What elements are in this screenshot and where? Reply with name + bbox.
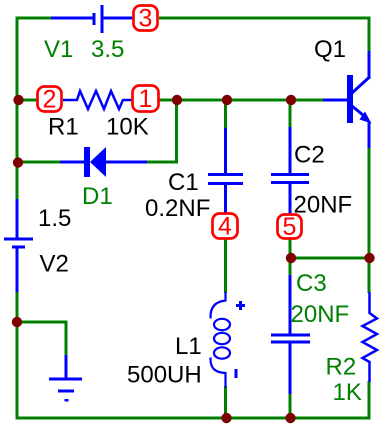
svg-text:V2: V2: [40, 251, 69, 278]
wire emitter lead: [368, 121, 371, 149]
svg-text:C1: C1: [168, 169, 199, 196]
capacitor C1 top plate: [208, 173, 243, 176]
wire diode row right to riser: [146, 100, 177, 162]
svg-text:0.2NF: 0.2NF: [145, 195, 210, 222]
node 1: [133, 86, 159, 112]
ground bar 2: [58, 390, 74, 393]
inductor L1 loop 3: [214, 347, 230, 358]
wire top-right rail: [159, 18, 369, 51]
svg-text:10K: 10K: [106, 114, 149, 141]
resistor R1: [63, 91, 132, 109]
wire C1 lead upper: [224, 128, 227, 174]
junction dot node5 row right: [364, 253, 374, 263]
wire base lead blue: [323, 99, 347, 102]
svg-text:1K: 1K: [333, 379, 362, 406]
inductor L1 loop 2: [214, 333, 230, 344]
capacitor C1 bottom plate: [208, 182, 243, 185]
wire C3 column bottom: [289, 394, 292, 418]
battery V2 lead upper: [16, 199, 19, 239]
node 5: [278, 215, 302, 239]
svg-text:C3: C3: [296, 270, 327, 297]
wire C1 lead lower: [224, 184, 227, 216]
wire C1 column top: [224, 100, 227, 129]
wire left vertical lower (V2 to bottom): [17, 291, 369, 418]
svg-text:20NF: 20NF: [291, 301, 350, 328]
diode D1 triangle: [90, 147, 106, 177]
svg-text:20NF: 20NF: [294, 192, 353, 219]
wire node4 to L1: [224, 238, 227, 293]
wire node5 to row: [289, 238, 292, 259]
svg-text:500UH: 500UH: [127, 362, 202, 389]
node 3: [134, 6, 158, 31]
junction dot diode row: [13, 157, 23, 167]
svg-text:R1: R1: [48, 114, 79, 141]
wire node5 row horizontal: [290, 257, 369, 260]
battery V2 long plate: [4, 238, 33, 241]
svg-text:R2: R2: [326, 354, 357, 381]
junction dot base row C2 branch: [286, 95, 296, 105]
svg-text:3.5: 3.5: [91, 36, 124, 63]
wire L1 to bottom: [224, 386, 227, 418]
transistor Q1 collector diagonal: [352, 77, 370, 93]
svg-text:L1: L1: [175, 333, 202, 360]
battery V1 lead left: [51, 17, 93, 20]
diode D1 lead left: [60, 161, 85, 164]
wire emitter column green: [368, 148, 371, 293]
ground stem: [65, 355, 68, 378]
resistor R2: [363, 292, 378, 382]
junction dot ground branch: [12, 317, 22, 327]
wire collector lead: [368, 51, 371, 79]
battery V2 lead lower: [16, 247, 19, 292]
capacitor C3 top plate: [271, 334, 310, 337]
ground bar 1: [49, 378, 82, 381]
ground bar 3: [65, 399, 69, 402]
wire base row right: [159, 99, 323, 102]
svg-text:5: 5: [283, 213, 297, 241]
transistor Q1 base bar: [347, 75, 353, 123]
wire C2 column top: [289, 100, 292, 128]
wire C3 lead upper: [289, 275, 292, 335]
svg-text:1: 1: [139, 85, 153, 113]
svg-text:1.5: 1.5: [38, 205, 71, 232]
svg-text:2: 2: [43, 86, 57, 114]
svg-text:Q1: Q1: [314, 36, 346, 63]
inductor L1 plus mark: [236, 301, 245, 310]
junction dot bottom L1: [221, 413, 231, 423]
battery V2 short plate: [12, 246, 25, 249]
node 4: [213, 214, 238, 239]
wire top-left rail: [17, 18, 51, 200]
battery V1 lead right: [103, 17, 133, 20]
wire C3 column top: [289, 258, 292, 276]
capacitor C2 bottom plate: [271, 181, 309, 184]
transistor Q1 emitter arrowhead: [360, 112, 372, 124]
svg-text:3: 3: [139, 5, 153, 33]
battery V1 long plate: [101, 5, 104, 33]
wire C2 lead lower: [289, 183, 292, 216]
diode D1 lead right: [106, 161, 147, 164]
battery V1 short plate: [93, 13, 96, 25]
inductor L1 loop 1: [214, 319, 230, 330]
wire C2 lead upper: [289, 127, 292, 174]
junction dot base row node1 side: [172, 95, 182, 105]
diode D1 cathode bar: [84, 147, 90, 177]
capacitor C2 top plate: [271, 173, 309, 176]
wire diode row left: [17, 161, 61, 164]
junction dot node5 row left: [286, 253, 296, 263]
wire ground branch: [17, 322, 66, 356]
svg-text:V1: V1: [44, 36, 73, 63]
svg-text:4: 4: [218, 213, 232, 241]
inductor L1 minus mark: [235, 369, 238, 378]
inductor L1 top hook: [211, 292, 226, 319]
junction dot base row C1 branch: [222, 95, 232, 105]
junction dot bottom C3: [285, 413, 295, 423]
svg-text:D1: D1: [82, 183, 113, 210]
svg-text:C2: C2: [294, 142, 325, 169]
junction dot base row left: [13, 95, 23, 105]
inductor L1 bottom hook: [211, 358, 226, 388]
wire C3 lead lower: [289, 342, 292, 395]
transistor Q1 emitter diagonal: [352, 106, 366, 118]
wire base row left: [17, 99, 37, 102]
capacitor C3 bottom plate: [271, 341, 310, 344]
node 2: [38, 87, 62, 112]
